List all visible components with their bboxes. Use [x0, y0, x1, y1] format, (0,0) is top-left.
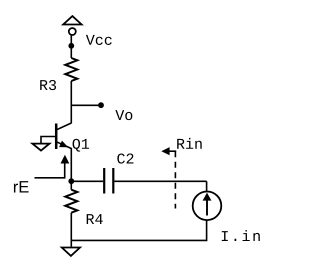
- wire to current source top: [206, 181, 208, 191]
- current source I.in circle: [193, 192, 222, 221]
- label rE: [14, 181, 29, 192]
- power symbol Vcc triangle: [63, 16, 81, 24]
- capacitor C2 left plate: [103, 168, 105, 194]
- wire current source bottom: [71, 220, 206, 240]
- label R3: [40, 80, 56, 90]
- wire Vo stub: [71, 104, 99, 106]
- wire Rin arrow shaft: [168, 150, 176, 152]
- label Vcc: [86, 35, 112, 45]
- wire R4 to ground: [70, 213, 72, 247]
- wire base lead: [41, 137, 55, 144]
- node dot Vo: [98, 102, 104, 108]
- dashed line Rin: [174, 151, 176, 208]
- transistor Q1 collector lead: [57, 123, 72, 130]
- wire emitter node to C2: [71, 180, 103, 182]
- wire emitter node to R4: [70, 181, 72, 189]
- label Q1: [73, 139, 90, 152]
- ground at base: [32, 144, 49, 151]
- wire rE annotation: [35, 163, 65, 178]
- wire R3 to collector: [70, 81, 72, 123]
- label Rin: [177, 138, 202, 149]
- junction dot emitter node: [68, 178, 74, 184]
- resistor R3: [65, 58, 77, 81]
- arrowhead Rin pointing left: [161, 147, 169, 155]
- ground at bottom: [62, 248, 80, 256]
- current source arrowhead: [203, 193, 212, 201]
- wire Vcc to R3: [70, 35, 72, 58]
- current source arrow shaft: [206, 200, 208, 216]
- power symbol Vcc circle: [69, 28, 76, 35]
- junction dot Vcc node: [68, 43, 74, 49]
- transistor Q1 base bar: [55, 124, 58, 150]
- resistor R4: [65, 190, 77, 213]
- transistor Q1 emitter arrowhead: [60, 141, 68, 147]
- arrowhead rE pointing up at emitter: [61, 155, 70, 164]
- label R4: [87, 214, 103, 224]
- wire C2 to current source: [114, 180, 206, 182]
- label Vo: [115, 110, 132, 120]
- transistor Q1 emitter lead: [57, 142, 72, 181]
- label C2: [117, 153, 133, 163]
- capacitor C2 right plate: [112, 168, 114, 194]
- label I.in: [222, 230, 260, 241]
